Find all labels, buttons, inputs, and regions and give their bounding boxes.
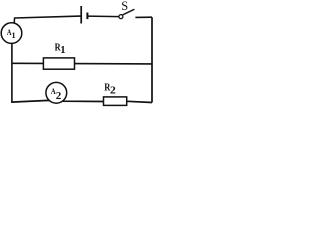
wire left rail (A1 bottom to bottom-left corner) [11,41,13,102]
battery short plate (negative) [86,13,88,20]
resistor R2 label [104,82,116,97]
battery long plate (positive) [80,6,82,24]
switch S pivot contact [119,15,123,19]
wire stub from top rail down to ammeter A1 [13,17,16,26]
resistor R1 box [43,58,74,69]
svg-text:1: 1 [60,45,65,56]
svg-text:2: 2 [56,90,62,102]
wire switch to top-right corner [135,16,152,18]
wire battery to switch pivot [87,15,119,18]
switch S blade [123,9,135,15]
ammeter A2 circle [46,82,67,103]
wire middle branch (R1 branch) [12,62,152,65]
wire bottom rail [11,100,152,102]
svg-text:1: 1 [12,31,16,40]
svg-text:2: 2 [110,84,116,96]
svg-text:S: S [121,0,128,13]
wire right rail [151,17,153,102]
resistor R2 box [104,97,127,106]
ammeter A1 label [7,28,16,40]
ammeter A2 label [51,86,62,102]
wire top rail left (corner above A1 to battery) [15,16,81,18]
resistor R1 label [55,42,66,56]
ammeter A1 circle [1,23,22,44]
